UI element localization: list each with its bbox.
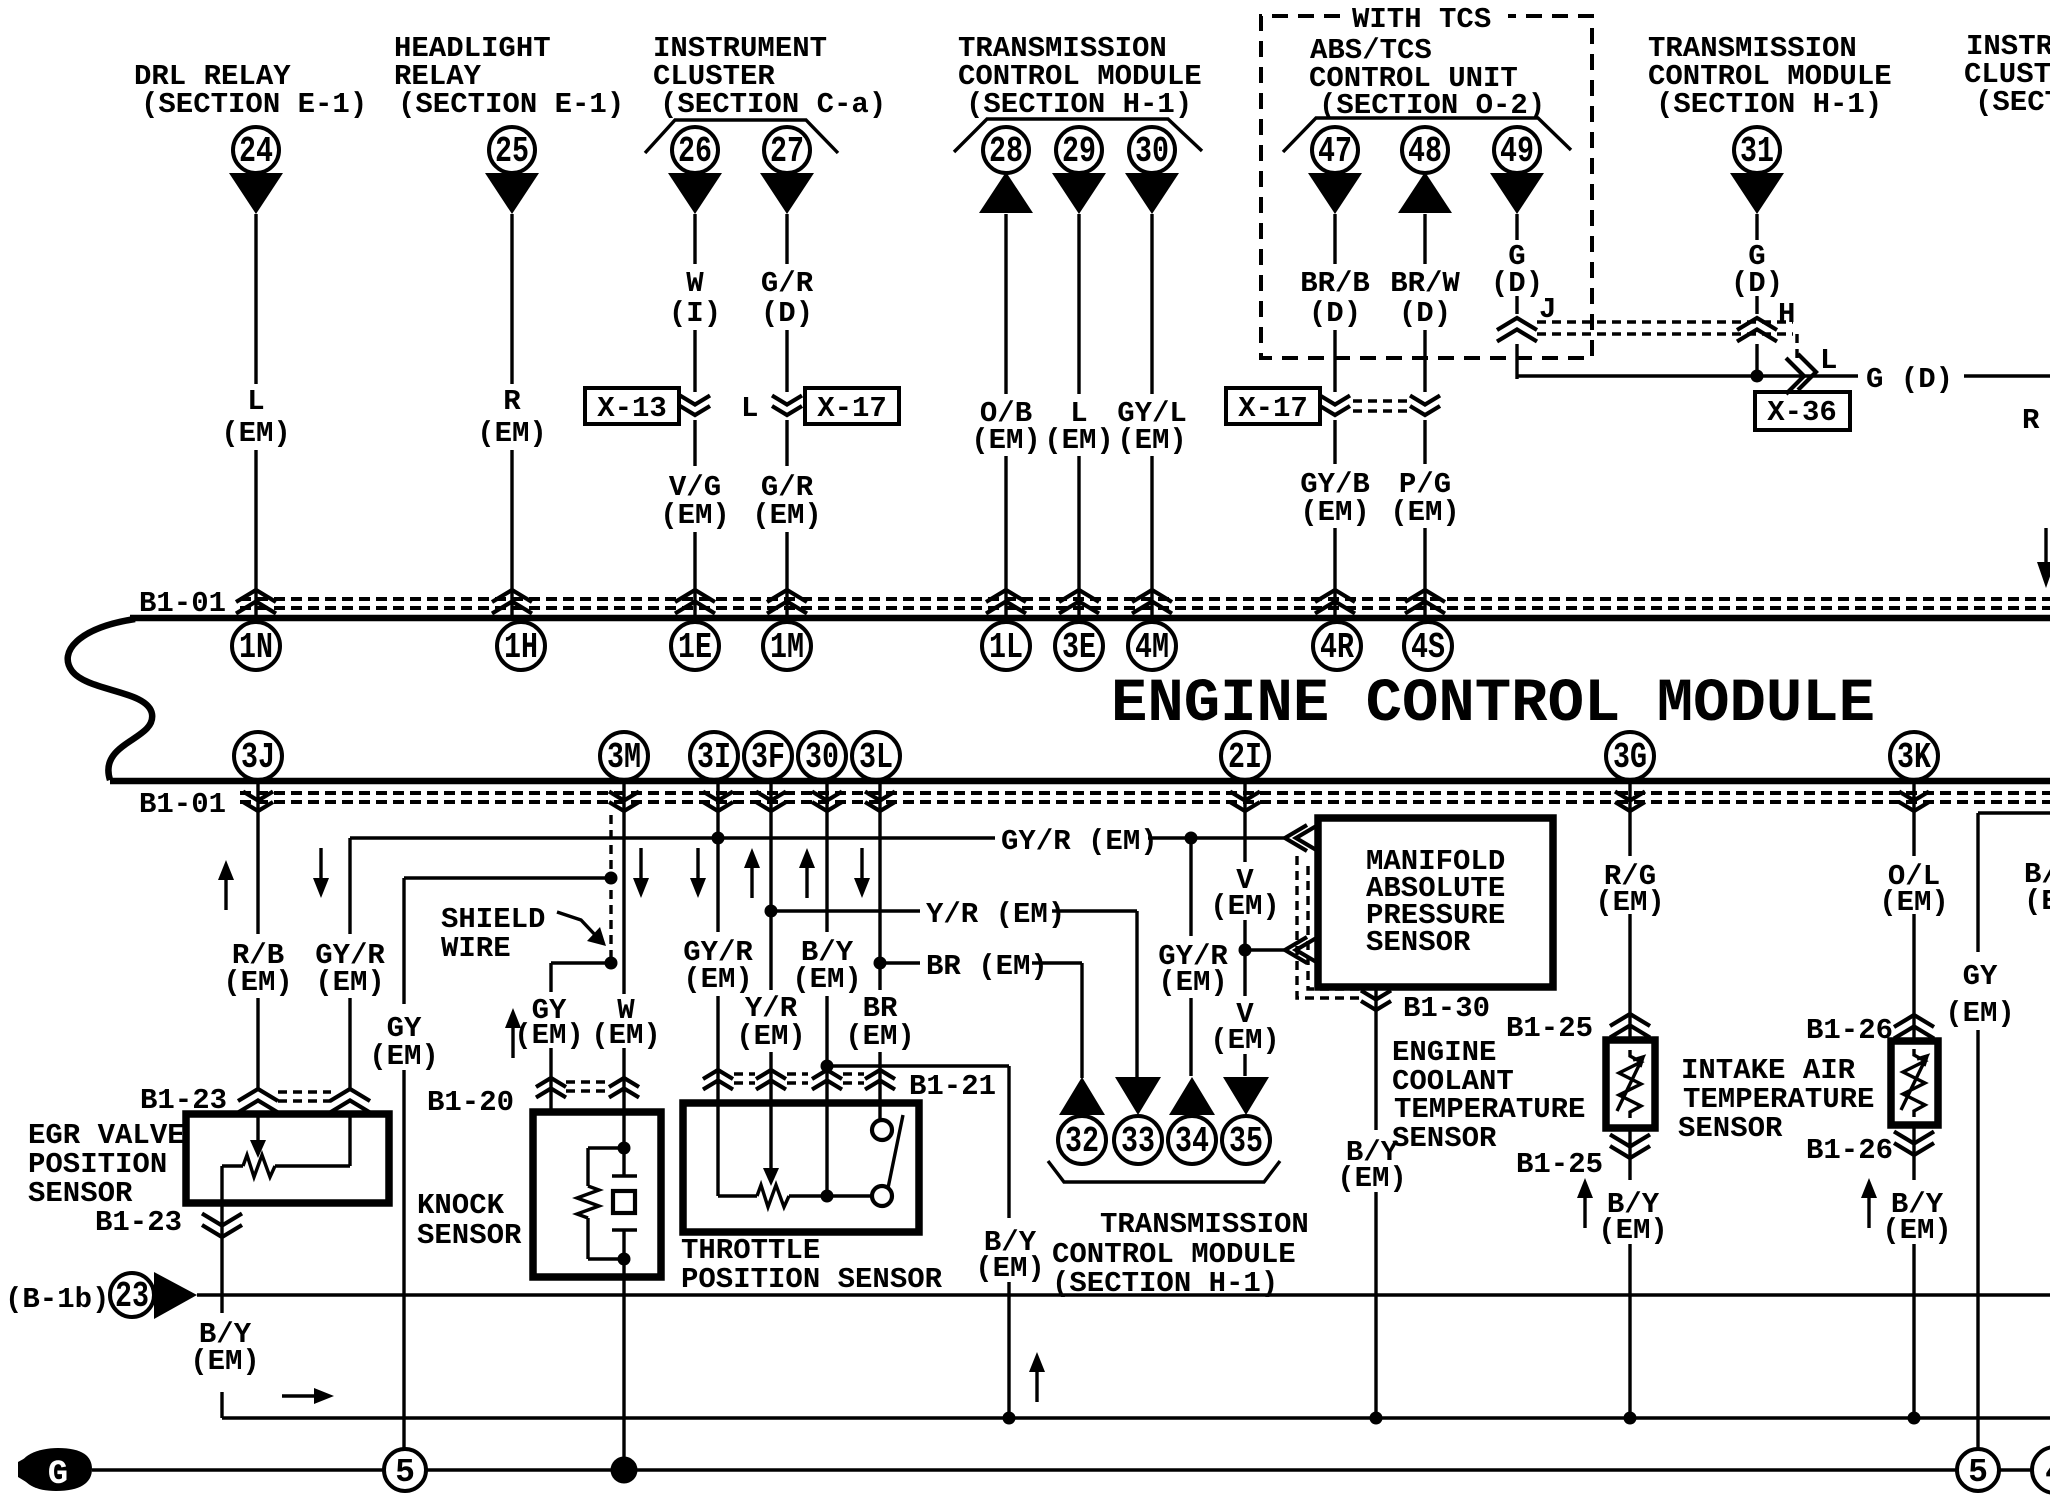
connector circle 47 (1312, 127, 1358, 173)
node collector at TCM B/Y (1003, 1412, 1016, 1425)
svg-text:B1-30: B1-30 (1403, 992, 1490, 1025)
component HEADLIGHT RELAY header (394, 32, 624, 121)
wire BR (EM) from ECM 3L down to throttle sensor (878, 783, 881, 1103)
wire B/Y (EM) from IAT to collector (1912, 1125, 1915, 1418)
component DRL RELAY header (134, 60, 367, 121)
svg-text:GY/R (EM): GY/R (EM) (1001, 825, 1158, 858)
connector fan chevron B1-30 (1361, 991, 1391, 1011)
pin circle 4S (1404, 622, 1452, 670)
svg-text:KNOCK: KNOCK (417, 1189, 505, 1222)
node V branch into MAP (1239, 944, 1252, 957)
node collector at ECT B/Y (1624, 1412, 1637, 1425)
svg-text:Y/R (EM): Y/R (EM) (926, 898, 1065, 931)
svg-text:1L: 1L (989, 627, 1023, 668)
wire label B/Y (EM) TCM (975, 1226, 1045, 1285)
connector triangle 33 (1115, 1077, 1161, 1115)
connector triangle 31 (1730, 173, 1784, 214)
wire label B/Y (EM) IAT (1882, 1188, 1952, 1247)
in-line connector chevron on wire 26 (680, 396, 710, 416)
svg-text:(SECTI: (SECTI (1975, 86, 2050, 119)
wire label GY (EM) right (1945, 960, 2015, 1030)
svg-text:(EM): (EM) (315, 966, 385, 999)
wire label L (EM) (221, 385, 291, 450)
pin circle 3I (690, 732, 738, 780)
svg-text:1M: 1M (770, 627, 804, 668)
connector chevron B1-26 upper (1894, 1015, 1934, 1039)
pin circle 3L (852, 732, 900, 780)
component INSTRUMENT CLUSTER header (right edge) (1964, 30, 2050, 119)
pin circle 2I (1221, 732, 1269, 780)
wire label V/G (EM) (660, 471, 730, 532)
EGR internal potentiometer resistor (222, 1114, 350, 1177)
shield wire dashed around MAP inputs (1297, 856, 1364, 998)
thermistor ECT (1617, 1050, 1643, 1118)
connector triangle 24 (229, 173, 283, 214)
bracket transmission control module (bottom) (1048, 1161, 1280, 1182)
svg-text:(EM): (EM) (975, 1252, 1045, 1285)
wire label B/Y (EM) throttle (792, 936, 862, 996)
wire label V (EM) upper (1210, 864, 1280, 923)
svg-text:(D): (D) (1309, 297, 1361, 330)
wire G (D) from ABS 49 (1515, 214, 1518, 379)
wire G/R (D) / G/R (EM) from cluster 27 to ECM 1M (785, 214, 788, 617)
svg-text:3M: 3M (607, 737, 641, 778)
pin circle 1M (763, 622, 811, 670)
connector circle 30 (1129, 127, 1175, 173)
component box INTAKE AIR TEMPERATURE SENSOR (1891, 1041, 1938, 1125)
pin circle 3K (1890, 732, 1938, 780)
direction arrow up beside ECT B/Y (1577, 1178, 1593, 1228)
svg-text:(EM): (EM) (1598, 1214, 1668, 1247)
svg-text:34: 34 (1175, 1121, 1209, 1162)
wire label W (I) (669, 267, 721, 330)
svg-text:(EM): (EM) (223, 966, 293, 999)
svg-text:ENGINE CONTROL MODULE: ENGINE CONTROL MODULE (1111, 670, 1875, 739)
svg-text:1N: 1N (239, 627, 273, 668)
connector triangle 35 (1223, 1077, 1269, 1115)
component TRANSMISSION CONTROL MODULE header (left) (958, 32, 1202, 121)
wire label B/Y (EM) below 23 (190, 1318, 260, 1378)
svg-text:5: 5 (395, 1454, 415, 1491)
svg-text:(SECTION E-1): (SECTION E-1) (141, 88, 367, 121)
connector box X-17 (right) (1226, 388, 1320, 425)
svg-text:(EM): (EM) (1879, 886, 1949, 919)
wire BR/W (D) / P/G (EM) from ABS 48 to ECM 4S (1423, 214, 1426, 617)
svg-text:X-13: X-13 (597, 392, 667, 425)
svg-text:23: 23 (115, 1276, 149, 1317)
svg-text:49: 49 (1500, 131, 1534, 172)
connector circle 34 (1168, 1116, 1216, 1164)
shield chevron V at MAP (1285, 937, 1318, 963)
svg-text:B1-26: B1-26 (1806, 1014, 1893, 1047)
connector chevron L (1786, 344, 1837, 394)
component box THROTTLE POSITION SENSOR (683, 1103, 919, 1232)
wire V (EM) from ECM 2I to MAP sensor (1243, 783, 1246, 1076)
connector chevron GY at knock (536, 1078, 566, 1098)
connector triangle 23 (right) (154, 1272, 197, 1319)
wire label BR/B (D) (1300, 267, 1370, 330)
thermistor IAT (1901, 1049, 1927, 1117)
throttle internal node (821, 1190, 834, 1203)
pin circle 3M (600, 732, 648, 780)
wire label L (EM) (1044, 397, 1114, 457)
svg-text:(EM): (EM) (1210, 1024, 1280, 1057)
pin circle 1H (497, 622, 545, 670)
svg-text:POSITION SENSOR: POSITION SENSOR (681, 1263, 943, 1296)
connector chevron B1-26 lower (1894, 1132, 1934, 1156)
pin circle 3G (1606, 732, 1654, 780)
connector circle 49 (1494, 127, 1540, 173)
svg-text:(EM): (EM) (752, 499, 822, 532)
harness chevron at 1M (767, 590, 807, 614)
dashed pair between EGR connectors (278, 1092, 331, 1101)
component TRANSMISSION CONTROL MODULE header (right) (1648, 32, 1892, 121)
svg-text:WIRE: WIRE (441, 932, 511, 965)
svg-text:SENSOR: SENSOR (1392, 1122, 1497, 1155)
svg-text:(D): (D) (1399, 297, 1451, 330)
wire G (D) from TCM 31 (1755, 214, 1758, 379)
svg-text:2I: 2I (1228, 737, 1262, 778)
connector chevron W at knock (609, 1078, 639, 1098)
wire L (EM) from DRL relay 24 to ECM 1N (254, 214, 257, 617)
throttle internal B/Y lead (825, 1103, 828, 1196)
dashed pair 2 at throttle connector (787, 1074, 808, 1083)
harness chevron at 4R (1315, 590, 1355, 614)
svg-text:(D): (D) (1491, 267, 1543, 300)
throttle internal wiper Y/R (763, 1103, 779, 1186)
connector chevron R/B at EGR (238, 1089, 278, 1113)
direction arrow down beside 3L wire (854, 848, 870, 898)
label KNOCK SENSOR (417, 1189, 522, 1252)
connector chevron Y/R at throttle (756, 1070, 786, 1090)
wire knock sensor ground to rail (622, 1259, 625, 1462)
svg-text:(SECTION E-1): (SECTION E-1) (398, 88, 624, 121)
node B/Y branch to TCM (821, 1060, 834, 1073)
svg-text:BR/W: BR/W (1390, 267, 1460, 300)
wire GY (EM) shield drain to ground rail (404, 878, 611, 1450)
svg-text:33: 33 (1121, 1121, 1155, 1162)
wire label GY/B (EM) (1300, 468, 1370, 529)
svg-text:(EM): (EM) (1300, 496, 1370, 529)
svg-text:(EM): (EM) (1158, 966, 1228, 999)
wire label GY (EM) knock (514, 994, 584, 1052)
connector triangle 30 (1125, 173, 1179, 214)
component box ENGINE COOLANT TEMPERATURE SENSOR (1606, 1040, 1655, 1128)
svg-text:(EM): (EM) (1044, 424, 1114, 457)
connector triangle 48 (up) (1398, 172, 1452, 213)
harness chevron at 1N (236, 590, 276, 614)
svg-text:W: W (686, 267, 704, 300)
svg-text:(EM): (EM) (1210, 890, 1280, 923)
svg-text:X-36: X-36 (1767, 396, 1837, 429)
svg-text:(EM): (EM) (477, 417, 547, 450)
svg-text:1E: 1E (678, 627, 712, 668)
wire label O/L (EM) (1879, 860, 1949, 919)
svg-text:(EM): (EM) (792, 963, 862, 996)
connector box X-17 (805, 388, 899, 425)
svg-text:(EM): (EM) (190, 1345, 260, 1378)
wire B/Y (EM) from EGR down to collector (220, 1203, 223, 1418)
connector circle 48 (1402, 127, 1448, 173)
connector circle 23 (110, 1273, 154, 1317)
ECM left curl bracket (68, 619, 152, 780)
wire label G (D) on 31 (1731, 240, 1783, 300)
wire W (EM) from ECM 3M to knock sensor (622, 783, 625, 1148)
svg-text:(EM): (EM) (971, 424, 1041, 457)
svg-text:4M: 4M (1135, 627, 1169, 668)
svg-text:L: L (1820, 344, 1837, 377)
svg-text:3K: 3K (1897, 737, 1931, 778)
svg-text:(EM): (EM) (221, 417, 291, 450)
connector triangle 26 (668, 173, 722, 214)
svg-text:30: 30 (805, 737, 839, 778)
svg-text:(B-1b): (B-1b) (5, 1283, 109, 1316)
label THROTTLE POSITION SENSOR (681, 1234, 943, 1296)
connector circle 25 (489, 127, 535, 173)
connector triangle 28 (up) (979, 172, 1033, 213)
harness chevron at 4S (1405, 590, 1445, 614)
ground symbol G (18, 1448, 92, 1494)
connector triangle 29 (1052, 173, 1106, 214)
wire label B/Y (EM) MAP (1337, 1136, 1407, 1195)
label ENGINE COOLANT TEMPERATURE SENSOR (1392, 1036, 1585, 1155)
node junction GY/R at 3I wire (712, 832, 725, 845)
wire GY/L (EM) from TCM 30 to ECM 4M (1150, 214, 1153, 617)
wire Y/R (EM) from ECM 3F down to throttle sensor (769, 783, 772, 1103)
connector chevron BR at throttle (865, 1070, 895, 1090)
knock internal piezo element (612, 1148, 637, 1259)
svg-text:B1-25: B1-25 (1506, 1012, 1593, 1045)
direction arrow up beside TCM B/Y wire (1029, 1352, 1045, 1402)
svg-text:25: 25 (495, 131, 529, 172)
connector circle 29 (1056, 127, 1102, 173)
svg-text:(SECTION H-1): (SECTION H-1) (1656, 88, 1882, 121)
pin circle 1N (232, 622, 280, 670)
svg-text:(D): (D) (1731, 267, 1783, 300)
connector chevron GY/R at EGR (330, 1089, 370, 1113)
wire GY/R (EM) horizontal net 3I to MAP sensor (350, 836, 1284, 839)
ground connector circle 5 (left) (384, 1449, 426, 1491)
pin circle 1L (982, 622, 1030, 670)
svg-text:X-17: X-17 (817, 392, 887, 425)
svg-text:1H: 1H (504, 627, 538, 668)
wire B/Y (EM) from ECM 3O down to throttle sensor (825, 783, 828, 1103)
connector triangle 25 (485, 173, 539, 214)
svg-text:GY: GY (1963, 960, 1998, 993)
svg-text:B1-26: B1-26 (1806, 1134, 1893, 1167)
dashed pair 1 at throttle connector (734, 1074, 755, 1083)
node junction of 49 and 31 wires (1751, 370, 1764, 383)
connector circle 28 (983, 127, 1029, 173)
svg-text:B1-23: B1-23 (95, 1206, 182, 1239)
ECM upper bus line (130, 615, 2050, 622)
wire label Y/R (EM) throttle (736, 992, 806, 1053)
svg-text:26: 26 (678, 131, 712, 172)
wire R (EM) from headlight relay 25 to ECM 1H (510, 214, 513, 617)
svg-text:5: 5 (1968, 1454, 1988, 1491)
svg-text:G (D): G (D) (1866, 363, 1953, 396)
svg-text:(EM): (EM) (1337, 1162, 1407, 1195)
component box KNOCK SENSOR (533, 1112, 661, 1277)
connector circle 32 (1058, 1116, 1106, 1164)
wire label BR (EM) throttle (845, 992, 915, 1053)
svg-text:27: 27 (770, 131, 804, 172)
bracket instrument cluster (645, 120, 838, 153)
svg-text:G: G (48, 1456, 68, 1494)
direction arrow up beside 3F wire (744, 848, 760, 898)
pin circle 4R (1313, 622, 1361, 670)
harness fan chevron at 3L (865, 792, 895, 812)
direction arrow up beside knock GY wire (505, 1008, 521, 1058)
wire label G/R (D) (761, 267, 814, 330)
wire BR (EM) horizontal branch to TCM 32 (880, 963, 1082, 1078)
direction arrow down beside 3I wire (690, 848, 706, 898)
wire B/Y (EM) from MAP B1-30 to collector (1374, 987, 1377, 1418)
svg-text:(E: (E (2024, 885, 2050, 918)
wire label GY/R (EM) (315, 939, 385, 999)
label TRANSMISSION CONTROL MODULE (SECTION H-1) (1052, 1208, 1309, 1300)
svg-text:G/R: G/R (761, 267, 814, 300)
throttle internal potentiometer (718, 1103, 872, 1207)
harness fan chevron at 3F (756, 792, 786, 812)
wire label G/R (EM) (752, 471, 822, 532)
wire B/Y (EM) collector rail (222, 1416, 2050, 1419)
connector triangle 34 (up) (1169, 1077, 1215, 1115)
svg-text:(EM): (EM) (683, 963, 753, 996)
svg-text:47: 47 (1318, 131, 1352, 172)
svg-text:4R: 4R (1320, 627, 1354, 668)
svg-text:3F: 3F (751, 737, 785, 778)
svg-text:(EM): (EM) (514, 1019, 584, 1052)
harness fan chevron at 3K (1899, 792, 1929, 812)
svg-text:24: 24 (239, 131, 273, 172)
harness dashed pair above upper bus (240, 599, 2050, 608)
node collector at IAT B/Y (1908, 1412, 1921, 1425)
harness fan chevron at 3J (243, 792, 273, 812)
throttle internal idle switch (872, 1103, 903, 1206)
ECM lower bus line (110, 778, 2050, 785)
knock internal bottom node (618, 1253, 631, 1266)
dashed pair between 47 and 48 connectors (1353, 401, 1409, 411)
wire B-1b rail across page (197, 1293, 2050, 1296)
in-line connector chevron on wire 27 (772, 396, 802, 416)
wire label R/G (EM) (1595, 860, 1665, 919)
svg-text:(SECTION C-a): (SECTION C-a) (660, 88, 886, 121)
component INSTRUMENT CLUSTER header (653, 32, 886, 121)
wire W (I) / V/G (EM) from cluster 26 to ECM 1E (693, 214, 696, 617)
shield chevron GY/R at MAP (1285, 825, 1318, 851)
knock internal resistor branch (577, 1148, 624, 1259)
wire R/B (EM) from ECM 3J to EGR sensor (256, 783, 259, 1088)
svg-text:3E: 3E (1062, 627, 1096, 668)
wire B/Y (EM) from ECT to collector (1628, 1128, 1631, 1418)
pin circle 3J (234, 732, 282, 780)
component ABS/TCS CONTROL UNIT header (1309, 34, 1545, 122)
svg-text:L: L (741, 392, 758, 425)
svg-text:B1-20: B1-20 (427, 1086, 514, 1119)
svg-text:4: 4 (2045, 1454, 2050, 1491)
svg-text:R: R (2022, 404, 2040, 437)
svg-text:(EM): (EM) (369, 1040, 439, 1073)
connector chevron B/Y at throttle (812, 1070, 842, 1090)
svg-text:B1-01: B1-01 (139, 788, 226, 821)
connector circle 35 (1222, 1116, 1270, 1164)
svg-text:31: 31 (1740, 131, 1774, 172)
wire label W (EM) knock (591, 994, 661, 1052)
svg-text:BR/B: BR/B (1300, 267, 1370, 300)
svg-text:(EM): (EM) (845, 1020, 915, 1053)
svg-text:3J: 3J (241, 737, 275, 778)
harness chevron at 4M (1132, 590, 1172, 614)
wire label GY/R (EM) to TCM 34 (1158, 838, 1228, 1076)
pin circle 3O (798, 732, 846, 780)
bracket ABS/TCS control unit (1283, 118, 1571, 152)
wire label B/Y (EM) ECT (1598, 1188, 1668, 1247)
wire G (D) horizontal to right edge (1517, 374, 2050, 377)
svg-text:(EM): (EM) (660, 499, 730, 532)
svg-text:TRANSMISSION: TRANSMISSION (1100, 1208, 1309, 1241)
svg-text:(EM): (EM) (591, 1019, 661, 1052)
wire label GY/L (EM) (1117, 397, 1187, 457)
svg-text:(EM): (EM) (1117, 424, 1187, 457)
direction arrow up beside 3O wire (799, 848, 815, 898)
svg-text:WITH TCS: WITH TCS (1352, 3, 1491, 36)
direction arrow up beside IAT B/Y (1861, 1178, 1877, 1228)
wire label GY/R (EM) throttle (683, 936, 753, 996)
connector chevron B1-25 lower (1610, 1135, 1650, 1159)
svg-text:(EM): (EM) (1945, 997, 2015, 1030)
harness chevron at 1H (492, 590, 532, 614)
dashed pair between knock connectors (566, 1082, 609, 1091)
direction arrow down beside EGR GY/R wire (313, 848, 329, 898)
svg-text:R: R (503, 385, 521, 418)
knock internal top node (618, 1142, 631, 1155)
wire O/L (EM) from ECM 3K to intake air sensor (1912, 783, 1915, 1041)
pin circle 1E (671, 622, 719, 670)
connector box X-36 (1755, 392, 1850, 430)
wire V into MAP sensor (1245, 948, 1284, 951)
dashed link J to L (1537, 322, 1797, 362)
wire GY/R (EM) from ECM 3I down to throttle sensor (716, 783, 719, 1103)
svg-text:H: H (1778, 298, 1795, 331)
wire label GY (EM) (369, 1012, 439, 1073)
svg-text:35: 35 (1229, 1121, 1263, 1162)
connector circle 31 (1734, 127, 1780, 173)
svg-text:B1-21: B1-21 (909, 1070, 996, 1103)
wire label G (D) on 49 (1491, 240, 1543, 300)
node BR branch (874, 957, 887, 970)
in-line connector chevron on wire 48 (1410, 396, 1440, 416)
svg-text:28: 28 (989, 131, 1023, 172)
wire label O/B (EM) (971, 397, 1041, 457)
svg-text:SENSOR: SENSOR (1366, 926, 1471, 959)
svg-text:(EM): (EM) (736, 1020, 806, 1053)
dashed pair 3 at throttle connector (843, 1074, 864, 1083)
wire label R/B (EM) (223, 939, 293, 999)
wire B/Y (EM) branch to transmission control module (827, 1066, 1009, 1418)
connector triangle 47 (1308, 173, 1362, 214)
wire label V (EM) lower (1210, 998, 1280, 1057)
harness chevron at 1E (675, 590, 715, 614)
node collector at MAP B/Y (1370, 1412, 1383, 1425)
connector chevron below EGR (202, 1214, 242, 1238)
harness chevron at 3E (1059, 590, 1099, 614)
wire R/G (EM) from ECM 3G to coolant sensor (1628, 783, 1631, 1040)
svg-text:(D): (D) (761, 297, 813, 330)
label MANIFOLD ABSOLUTE PRESSURE SENSOR (1366, 845, 1505, 959)
connector box X-13 (585, 388, 679, 425)
wire BR/B (D) / GY/B (EM) from ABS 47 to ECM 4R (1333, 214, 1336, 617)
